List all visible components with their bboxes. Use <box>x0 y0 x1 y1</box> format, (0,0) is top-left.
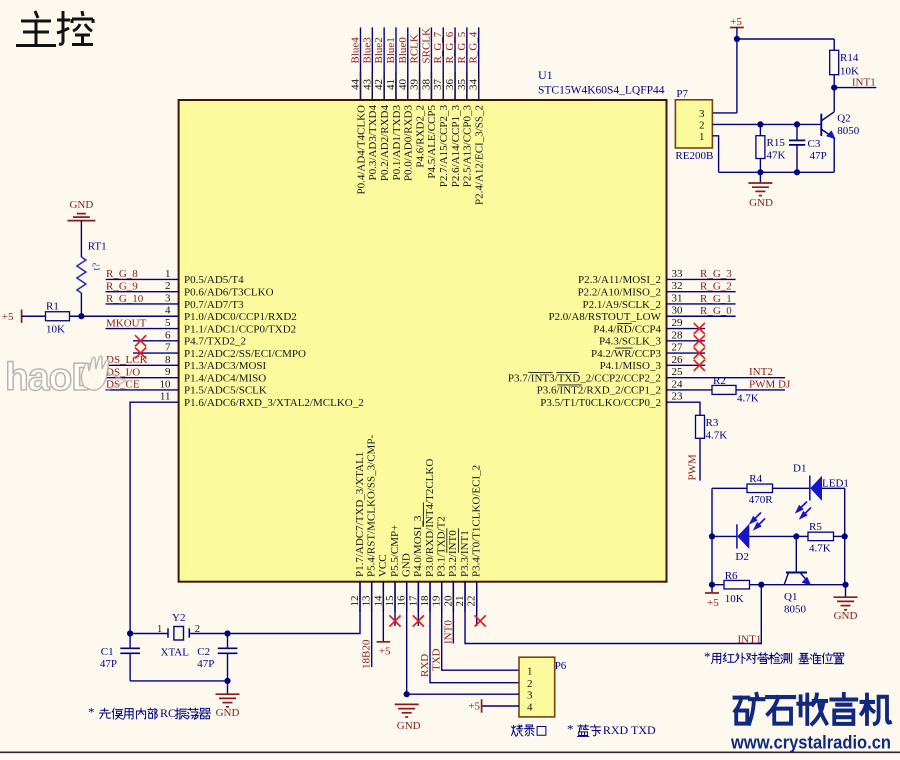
wire R14 to INT1 node <box>833 75 835 88</box>
svg-text:R_G_10: R_G_10 <box>106 293 144 305</box>
wire pin 12 XTAL1 down-left to crystal <box>228 582 361 634</box>
no-connect pin 27 stub <box>667 352 706 354</box>
svg-text:29: 29 <box>672 317 684 329</box>
svg-text:Q1: Q1 <box>784 591 797 603</box>
wire middle row to D2 <box>712 535 737 537</box>
svg-text:4: 4 <box>527 702 533 714</box>
svg-text:*: * <box>88 705 95 720</box>
svg-text:3: 3 <box>527 690 533 702</box>
svg-text:RXD: RXD <box>419 654 431 677</box>
svg-text:R_G_8: R_G_8 <box>106 268 138 280</box>
no-connect X pin 17 <box>413 615 424 626</box>
svg-text:P1.7/ADC7/TXD_3/XTAL1: P1.7/ADC7/TXD_3/XTAL1 <box>354 452 366 577</box>
svg-text:PWM: PWM <box>687 454 699 481</box>
title 主控 <box>16 11 93 46</box>
svg-text:4.7K: 4.7K <box>809 543 831 555</box>
svg-text:P2.7/A15/CCP2_3: P2.7/A15/CCP2_3 <box>438 105 450 188</box>
svg-text:6: 6 <box>165 329 171 341</box>
wire net R_G_10 to pin 3 <box>106 303 179 305</box>
svg-text:P3.0/RXD/INT4/T2CLKO: P3.0/RXD/INT4/T2CLKO <box>424 459 436 577</box>
wire net R_G_9 to pin 2 <box>106 291 179 293</box>
wire R5 to right rail <box>834 535 845 537</box>
svg-text:16: 16 <box>396 595 408 607</box>
overline bars for active-low pin names <box>423 324 632 553</box>
resistor R15 body <box>759 124 761 135</box>
wire net INT2 pin 25 <box>667 377 786 379</box>
svg-text:P1.1/ADC1/CCP0/TXD2: P1.1/ADC1/CCP0/TXD2 <box>184 323 296 335</box>
svg-text:8050: 8050 <box>837 125 860 137</box>
svg-text:D1: D1 <box>793 463 806 475</box>
svg-text:P5.5/CMP+: P5.5/CMP+ <box>389 525 401 577</box>
wire net R_G_7 to pin 37 (top) <box>442 27 444 100</box>
no-connect X pin 22 <box>475 615 486 626</box>
no-connect pin 29 stub <box>667 328 706 330</box>
svg-text:23: 23 <box>672 391 684 403</box>
wire net R_G_3 pin 33 <box>667 278 736 280</box>
junction gnd rail R15 <box>757 169 763 175</box>
svg-text:+5: +5 <box>2 311 14 323</box>
svg-text:P4.3/SCLK_3: P4.3/SCLK_3 <box>599 336 662 348</box>
svg-text:470R: 470R <box>749 494 774 506</box>
no-connect X pin 29 <box>694 323 705 334</box>
svg-text:P6: P6 <box>555 660 567 672</box>
svg-text:10: 10 <box>160 378 172 390</box>
svg-text:10K: 10K <box>46 324 65 336</box>
wire R2 to net PWM DJ <box>736 389 785 391</box>
svg-text:RXD TXD: RXD TXD <box>603 723 656 737</box>
svg-text:RCLK: RCLK <box>409 34 421 63</box>
power +5 port P6 <box>481 699 483 712</box>
svg-text:Blue1: Blue1 <box>385 37 397 63</box>
svg-text:2: 2 <box>699 120 705 132</box>
wire pin 24 to R2 <box>667 389 713 391</box>
svg-text:GND: GND <box>397 720 421 732</box>
wire net Blue1 to pin 41 (top) <box>395 27 397 100</box>
junction INT1 at Q1 base <box>758 582 764 588</box>
svg-text:U1: U1 <box>538 68 553 82</box>
svg-text:42: 42 <box>373 79 385 90</box>
resistor R3 body <box>696 415 705 438</box>
ground symbol P7 circuit <box>759 172 761 183</box>
svg-text:47P: 47P <box>197 658 214 670</box>
svg-text:20: 20 <box>442 595 454 607</box>
svg-text:33: 33 <box>672 268 684 280</box>
junction gnd rail C3 <box>794 169 800 175</box>
ground symbol IR detector <box>845 585 847 598</box>
ground rail under P7 circuit <box>719 171 835 173</box>
svg-text:21: 21 <box>454 596 466 607</box>
svg-text:P2.2/A10/MISO_2: P2.2/A10/MISO_2 <box>578 286 661 298</box>
no-connect pin 7 stub <box>133 352 179 354</box>
wire pin 11 XTAL2 down to crystal <box>130 402 179 633</box>
connector P7 body <box>675 100 712 148</box>
svg-text:R_G_5: R_G_5 <box>456 31 468 63</box>
svg-text:D2: D2 <box>735 551 748 563</box>
svg-text:Y2: Y2 <box>172 612 185 624</box>
svg-text:9: 9 <box>165 366 171 378</box>
svg-text:32: 32 <box>672 280 683 292</box>
svg-text:4: 4 <box>165 305 171 317</box>
svg-text:2: 2 <box>527 678 533 690</box>
wire GND to RT1 <box>80 221 82 257</box>
svg-text:P4.6/RXD2_2: P4.6/RXD2_2 <box>414 105 426 168</box>
svg-text:GND: GND <box>69 199 93 211</box>
svg-text:P0.1/AD1/TXD3: P0.1/AD1/TXD3 <box>391 105 403 181</box>
crystal Y2 body <box>167 628 169 637</box>
svg-text:P4.5/ALE/CCP5: P4.5/ALE/CCP5 <box>426 105 438 179</box>
svg-text:P0.0/AD0/RXD3: P0.0/AD0/RXD3 <box>403 105 415 182</box>
junction at GND P6 pin3 <box>404 691 410 697</box>
wire top row to R4 <box>712 487 747 489</box>
svg-text:RC: RC <box>160 706 176 720</box>
svg-text:TXD: TXD <box>431 648 443 671</box>
svg-text:19: 19 <box>431 595 443 607</box>
wire net INT0 pin 20 <box>452 582 454 644</box>
LED D1 body <box>809 476 811 501</box>
capacitor C1 body <box>129 634 131 649</box>
svg-text:P0.6/AD6/T3CLKO: P0.6/AD6/T3CLKO <box>184 286 274 298</box>
svg-text:PWM DJ: PWM DJ <box>749 378 791 390</box>
svg-text:47P: 47P <box>100 658 117 670</box>
wire left rail of IR detector <box>711 488 713 584</box>
svg-text:*: * <box>567 722 574 737</box>
svg-text:R3: R3 <box>706 417 719 429</box>
wire junction to R5 <box>796 535 808 537</box>
svg-text:5: 5 <box>165 317 171 329</box>
svg-text:+5: +5 <box>730 16 742 28</box>
svg-text:R_G_9: R_G_9 <box>106 280 138 292</box>
svg-text:INT1: INT1 <box>738 634 762 646</box>
svg-text:40: 40 <box>397 79 409 91</box>
wire net Blue4 to pin 44 (top) <box>360 27 362 100</box>
no-connect pin 17 stub <box>417 582 419 626</box>
wire P7 pin 2 to Q2 base <box>712 123 821 125</box>
wire net INT1 top right <box>834 87 876 89</box>
wire R6 to Q1 base junction <box>750 584 846 586</box>
svg-text:P7: P7 <box>676 88 688 100</box>
svg-text:37: 37 <box>432 79 444 91</box>
wire P6 pin 3 to GND junction <box>407 693 519 695</box>
no-connect pin 15 stub <box>394 582 396 626</box>
junction middle center <box>793 533 799 539</box>
svg-text:P4.0/MOSI_3: P4.0/MOSI_3 <box>412 515 424 577</box>
junction node at R1/RT1 <box>78 313 84 319</box>
svg-text:GND: GND <box>216 707 240 719</box>
power +5 port IR detector <box>711 585 713 593</box>
wire R3 to net PWM <box>699 438 701 480</box>
resistor R5 body <box>808 532 834 541</box>
connector P6 body <box>519 657 555 717</box>
wire +5 down to P7 pin 3 <box>736 39 738 113</box>
wire net R_G_2 pin 32 <box>667 291 736 293</box>
resistor R1 body <box>46 312 70 321</box>
wire net SRCLK to pin 38 (top) <box>430 27 432 100</box>
svg-text:1: 1 <box>527 666 533 678</box>
wire +5 to R14 <box>737 38 834 40</box>
svg-text:Blue2: Blue2 <box>373 37 385 63</box>
junction INT1 node <box>831 85 837 91</box>
svg-text:R6: R6 <box>725 570 738 582</box>
svg-text:R5: R5 <box>809 521 822 533</box>
photodiode D2 body <box>736 524 738 548</box>
wire D1 to right rail <box>822 487 845 489</box>
svg-text:P3.5/T1/T0CLKO/CCP0_2: P3.5/T1/T0CLKO/CCP0_2 <box>540 397 661 409</box>
svg-text:C3: C3 <box>808 138 821 150</box>
wire net 18B20 pin 13 <box>371 582 373 667</box>
svg-text:27: 27 <box>672 342 684 354</box>
svg-text:RT1: RT1 <box>88 241 107 253</box>
svg-text:P1.3/ADC3/MOSI: P1.3/ADC3/MOSI <box>184 360 267 372</box>
svg-text:P3.6/INT2/RXD_2/CCP1_2: P3.6/INT2/RXD_2/CCP1_2 <box>537 385 661 397</box>
svg-text:STC15W4K60S4_LQFP44: STC15W4K60S4_LQFP44 <box>538 85 665 97</box>
no-connect X pin 27 <box>694 347 705 358</box>
svg-text:P3.3/INT1: P3.3/INT1 <box>459 530 471 577</box>
svg-text:17: 17 <box>407 595 419 607</box>
wire R4 to D1 <box>773 487 810 489</box>
svg-text:41: 41 <box>385 79 397 90</box>
svg-text:13: 13 <box>361 595 373 607</box>
capacitor C3 body <box>796 124 798 140</box>
sheet bottom border line <box>0 751 900 753</box>
svg-text:P1.6/ADC6/RXD_3/XTAL2/MCLKO_2: P1.6/ADC6/RXD_3/XTAL2/MCLKO_2 <box>184 397 364 409</box>
wire pin 16 GND down <box>406 582 408 695</box>
no-connect pin 26 stub <box>667 364 706 366</box>
junction C3 top <box>794 121 800 127</box>
svg-text:1: 1 <box>699 131 705 143</box>
resistor R14 body <box>830 50 839 74</box>
svg-text:RE200B: RE200B <box>675 150 713 162</box>
svg-text:R_G_0: R_G_0 <box>700 305 732 317</box>
svg-text:R4: R4 <box>749 473 762 485</box>
wire +5 to R1 <box>22 315 46 317</box>
watermark haoD with hand <box>5 356 99 399</box>
svg-text:P2.1/A9/SCLK_2: P2.1/A9/SCLK_2 <box>582 299 661 311</box>
svg-text:C1: C1 <box>101 646 114 658</box>
svg-text:22: 22 <box>466 596 478 607</box>
svg-text:+5: +5 <box>707 597 719 609</box>
wire pin 19 TXD to P6 pin 1 <box>442 582 519 671</box>
svg-text:R2: R2 <box>713 375 726 387</box>
bottom pin stubs (black) <box>359 582 361 612</box>
svg-text:P2.6/A14/CCP1_3: P2.6/A14/CCP1_3 <box>450 105 462 188</box>
svg-text:3: 3 <box>699 108 705 120</box>
wire net DS_I/O to pin 9 <box>106 377 179 379</box>
svg-text:34: 34 <box>468 79 480 91</box>
svg-text:11: 11 <box>160 391 171 403</box>
junction at crystal ground <box>224 678 230 684</box>
svg-text:P2.4/A12/ECI_3/SS_2: P2.4/A12/ECI_3/SS_2 <box>474 105 486 205</box>
wire net R_G_5 to pin 35 (top) <box>466 27 468 100</box>
svg-text:P0.3/AD3/TXD4: P0.3/AD3/TXD4 <box>367 105 379 181</box>
junction at Q1 emitter gnd <box>842 582 848 588</box>
wire crystal right <box>189 633 227 635</box>
svg-text:P1.5/ADC5/SCLK: P1.5/ADC5/SCLK <box>184 385 267 397</box>
svg-text:SRCLK: SRCLK <box>420 28 432 64</box>
svg-text:P1.2/ADC2/SS/ECI/CMPO: P1.2/ADC2/SS/ECI/CMPO <box>184 348 306 360</box>
wire INT1 node to Q2 collector <box>833 88 835 112</box>
junction bottom left IR <box>709 582 715 588</box>
wire crystal left <box>130 633 168 635</box>
svg-text:R_G_3: R_G_3 <box>700 268 732 280</box>
svg-text:4.7K: 4.7K <box>737 392 759 404</box>
no-connect X pin 26 <box>694 360 705 371</box>
watermark logo 矿石收音机 <box>735 694 890 724</box>
wire net Blue2 to pin 42 (top) <box>383 27 385 100</box>
note label 烧录口 (programming port) <box>511 725 522 736</box>
wire net R_G_8 to pin 1 <box>106 278 179 280</box>
junction crystal right node <box>224 630 230 636</box>
wire net R_G_6 to pin 36 (top) <box>454 27 456 100</box>
top pin stubs (black) <box>360 72 362 100</box>
svg-text:1: 1 <box>165 268 171 280</box>
svg-text:R15: R15 <box>767 137 786 149</box>
svg-text:8: 8 <box>165 354 171 366</box>
resistor R4 body <box>747 484 773 493</box>
svg-text:GND: GND <box>834 610 858 622</box>
junction crystal left node <box>127 630 133 636</box>
wire pin 18 RXD to P6 pin 2 <box>430 582 519 683</box>
no-connect X pin 28 <box>694 335 705 346</box>
svg-text:P3.7/INT3/TXD_2/CCP2/CCP2_2: P3.7/INT3/TXD_2/CCP2/CCP2_2 <box>508 372 661 384</box>
thermistor RT1 body <box>77 257 86 293</box>
svg-text:25: 25 <box>672 366 684 378</box>
wire pin 14 VCC to +5 <box>382 582 384 642</box>
svg-text:24: 24 <box>672 378 684 390</box>
svg-text:C2: C2 <box>197 646 210 658</box>
svg-text:P3.1/TXD/T2: P3.1/TXD/T2 <box>435 516 447 577</box>
no-connect X pin 6 <box>135 335 146 346</box>
svg-text:18: 18 <box>419 595 431 607</box>
svg-text:P2.3/A11/MOSI_2: P2.3/A11/MOSI_2 <box>578 274 661 286</box>
svg-text:INT1: INT1 <box>852 76 876 88</box>
svg-text:36: 36 <box>444 79 456 91</box>
svg-text:P1.0/ADC0/CCP1/RXD2: P1.0/ADC0/CCP1/RXD2 <box>184 311 297 323</box>
svg-text:P3.2/INT0: P3.2/INT0 <box>447 530 459 577</box>
junction +5 node <box>734 36 740 42</box>
wire R1 to pin 4 with junction <box>70 315 179 317</box>
svg-text:P0.4/AD4/T4CLKO: P0.4/AD4/T4CLKO <box>355 105 367 195</box>
wire net R_G_1 pin 31 <box>667 303 736 305</box>
wire net DS_CE to pin 10 <box>106 389 179 391</box>
junction R15 top <box>757 121 763 127</box>
svg-text:P2.5/A13/CCP0_3: P2.5/A13/CCP0_3 <box>462 105 474 188</box>
no-connect pin 22 stub <box>476 582 478 626</box>
svg-text:XTAL: XTAL <box>161 647 190 659</box>
resistor R6 body <box>724 580 750 589</box>
svg-text:P4.2/WR/CCP3: P4.2/WR/CCP3 <box>591 348 662 360</box>
svg-text:39: 39 <box>409 79 421 91</box>
no-connect X pin 15 <box>389 615 400 626</box>
svg-text:INT0: INT0 <box>442 620 454 644</box>
svg-text:3: 3 <box>165 292 171 304</box>
wire RT1 to junction <box>80 293 82 316</box>
wire net DS_LCK to pin 8 <box>106 364 179 366</box>
wire pin 23 to R3 <box>667 402 701 415</box>
wire net MKOUT to pin 5 <box>106 328 179 330</box>
svg-text:47K: 47K <box>767 150 786 162</box>
svg-text:Blue3: Blue3 <box>361 37 373 64</box>
capacitor C2 body <box>227 634 229 649</box>
junction middle left <box>709 533 715 539</box>
svg-text:1: 1 <box>157 624 162 635</box>
wire net R_G_0 pin 30 <box>667 315 736 317</box>
wire C1 bottom to C2 bottom <box>130 680 227 682</box>
D2 light arrows <box>751 513 765 529</box>
power +5 port pin 14 <box>377 641 390 643</box>
D1 light arrows <box>797 502 811 518</box>
svg-text:P0.2/AD2/RXD4: P0.2/AD2/RXD4 <box>379 105 391 182</box>
svg-text:GND: GND <box>749 197 773 209</box>
svg-text:4.7K: 4.7K <box>706 430 728 442</box>
svg-text:43: 43 <box>361 79 373 91</box>
svg-text:P4.4/RD/CCP4: P4.4/RD/CCP4 <box>593 323 661 335</box>
no-connect pin 6 stub <box>133 340 179 342</box>
svg-text:VCC: VCC <box>377 554 389 577</box>
svg-text:Blue4: Blue4 <box>350 37 362 64</box>
svg-text:Q2: Q2 <box>837 113 850 125</box>
svg-text:P1.4/ADC4/MISO: P1.4/ADC4/MISO <box>184 372 266 384</box>
svg-text:+5: +5 <box>468 701 480 713</box>
svg-text:30: 30 <box>672 305 684 317</box>
wire net RCLK to pin 39 (top) <box>419 27 421 100</box>
svg-text:P4.1/MISO_3: P4.1/MISO_3 <box>600 360 662 372</box>
wire rail to R6 <box>712 584 724 586</box>
svg-text:t?: t? <box>91 262 103 270</box>
svg-text:31: 31 <box>672 292 683 304</box>
wire net INT1 pin 21 to IR detector <box>465 582 761 644</box>
svg-text:18B20: 18B20 <box>361 639 373 669</box>
wire net Blue0 to pin 40 (top) <box>407 27 409 100</box>
svg-text:MKOUT: MKOUT <box>106 317 147 329</box>
svg-text:14: 14 <box>372 595 384 607</box>
svg-text:10K: 10K <box>725 593 744 605</box>
svg-text:2: 2 <box>165 280 171 292</box>
svg-text:R1: R1 <box>46 301 59 313</box>
wire junction down to Q1 collector <box>795 536 797 572</box>
svg-text:GND: GND <box>400 553 412 577</box>
wire P7 pin 1 to ground rail <box>712 136 718 173</box>
svg-text:P4.7/TXD2_2: P4.7/TXD2_2 <box>184 336 246 348</box>
svg-text:P0.5/AD5/T4: P0.5/AD5/T4 <box>184 274 244 286</box>
svg-text:44: 44 <box>350 79 362 91</box>
svg-text:DS_I/O: DS_I/O <box>106 366 140 378</box>
transistor Q1 body <box>786 572 807 574</box>
svg-text:15: 15 <box>384 595 396 607</box>
wire net Blue3 to pin 43 (top) <box>371 27 373 100</box>
ground symbol at crystal <box>227 681 229 694</box>
svg-text:INT2: INT2 <box>749 366 773 378</box>
wire right rail of IR detector <box>844 488 846 584</box>
svg-text:DS_LCK: DS_LCK <box>106 354 148 366</box>
svg-text:P5.4/RST/MCLKO/SS_3/CMP-: P5.4/RST/MCLKO/SS_3/CMP- <box>365 435 377 577</box>
wire net R_G_4 to pin 34 (top) <box>478 27 480 100</box>
svg-text:P3.4/T0/T1CLKO/ECI_2: P3.4/T0/T1CLKO/ECI_2 <box>471 465 483 577</box>
svg-text:P2.0/A8/RSTOUT_LOW: P2.0/A8/RSTOUT_LOW <box>548 311 661 323</box>
svg-text:R_G_7: R_G_7 <box>432 31 444 63</box>
ground symbol at pin 16 <box>395 703 419 705</box>
svg-text:R_G_2: R_G_2 <box>700 280 732 292</box>
svg-text:R14: R14 <box>840 52 859 64</box>
svg-text:35: 35 <box>456 79 468 91</box>
no-connect X pin 7 <box>135 347 146 358</box>
resistor R2 body <box>712 385 736 394</box>
IC U1 STC15W4K60S4_LQFP44 body <box>179 100 667 582</box>
junction middle right <box>842 533 848 539</box>
svg-text:R_G_4: R_G_4 <box>468 31 480 63</box>
svg-text:26: 26 <box>672 354 684 366</box>
wire P6 pin 4 to +5 <box>482 705 519 707</box>
svg-text:+5: +5 <box>379 646 391 658</box>
